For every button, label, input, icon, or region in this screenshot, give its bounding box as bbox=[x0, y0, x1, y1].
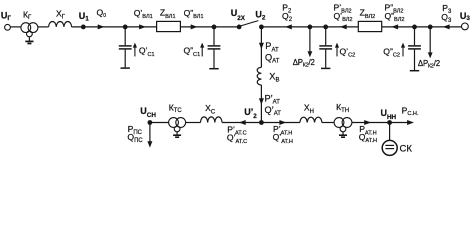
arrow Q0 right bbox=[98, 24, 105, 29]
wire bbox=[260, 85, 262, 123]
QC1 up arrow bbox=[134, 47, 136, 57]
svg-text:U’2: U’2 bbox=[244, 107, 257, 120]
svg-text:ΔPК2/2: ΔPК2/2 bbox=[293, 58, 315, 68]
loss branch dPk2/2 right bbox=[429, 27, 431, 53]
svg-text:UГ: UГ bbox=[1, 10, 12, 22]
svg-text:U2: U2 bbox=[255, 10, 266, 22]
loss branch dPk2/2 left bbox=[309, 27, 311, 52]
junction dot bbox=[428, 25, 433, 30]
arrow PС.Н right bbox=[407, 120, 414, 125]
bottom wire left bbox=[150, 122, 169, 124]
wire bbox=[180, 26, 239, 28]
arrow P2Q2 left bbox=[285, 24, 292, 29]
arrow P'АТ down bbox=[259, 98, 264, 105]
capacitor C1b branch bbox=[208, 27, 221, 69]
svg-text:Q’С2: Q’С2 bbox=[340, 46, 356, 58]
arrow PПС down bbox=[147, 141, 152, 147]
wire bbox=[38, 26, 49, 28]
ground bbox=[173, 132, 181, 137]
svg-text:Q”С1: Q”С1 bbox=[184, 46, 201, 58]
svg-text:UСН: UСН bbox=[140, 106, 156, 119]
svg-text:КТС: КТС bbox=[169, 102, 183, 114]
wire bbox=[261, 26, 358, 28]
QC2 up arrow bbox=[336, 47, 338, 57]
switch blade U2X-U2 bbox=[239, 21, 258, 27]
arrow P'АТ.С left bbox=[239, 120, 246, 125]
wire bbox=[186, 122, 201, 124]
arrow P3Q3 left bbox=[443, 24, 450, 29]
synchronous condenser stem bbox=[389, 123, 391, 141]
svg-text:ХГ: ХГ bbox=[56, 8, 66, 20]
svg-text:ХН: ХН bbox=[304, 103, 314, 115]
junction dot bbox=[412, 25, 417, 30]
svg-text:КТН: КТН bbox=[336, 102, 349, 114]
wire bbox=[352, 122, 413, 124]
inductor XГ bbox=[49, 21, 72, 26]
junction dot bbox=[212, 25, 217, 30]
junction dot bbox=[123, 25, 128, 30]
inductor XН bbox=[300, 117, 322, 122]
QC2b up arrow bbox=[402, 47, 404, 57]
svg-text:Q’АТ: Q’АТ bbox=[265, 105, 282, 117]
arrow QC1b up bbox=[200, 43, 204, 48]
svg-text:Q”С2: Q”С2 bbox=[383, 46, 400, 58]
wire bbox=[322, 122, 334, 124]
arrow PАТ down bbox=[259, 43, 264, 50]
junction dot bbox=[323, 25, 328, 30]
svg-text:U3: U3 bbox=[460, 11, 471, 22]
svg-text:ХВ: ХВ bbox=[269, 72, 279, 84]
svg-text:Q0: Q0 bbox=[97, 7, 107, 19]
wire bbox=[11, 26, 21, 28]
capacitor C2b branch bbox=[408, 27, 421, 71]
svg-text:ХС: ХС bbox=[205, 103, 216, 115]
capacitor C2 branch bbox=[319, 27, 332, 69]
svg-text:Q’ВЛ1: Q’ВЛ1 bbox=[134, 8, 153, 20]
svg-text:Q”ВЛ1: Q”ВЛ1 bbox=[184, 8, 204, 20]
arrow QC2 up bbox=[335, 43, 339, 48]
arrow P'АТ.Н right bbox=[279, 120, 286, 125]
terminal U3 bbox=[462, 23, 469, 30]
svg-text:СК: СК bbox=[400, 144, 413, 155]
arrow dPК2/2 down right bbox=[428, 52, 433, 58]
svg-text:Q’С1: Q’С1 bbox=[139, 46, 155, 58]
node UСН dot bbox=[148, 120, 153, 125]
arrow dPК2/2 down left bbox=[308, 51, 313, 57]
svg-text:QАТ: QАТ bbox=[265, 52, 280, 64]
terminal UГ bbox=[5, 24, 11, 30]
arrow Q'ВЛ1 right bbox=[139, 24, 146, 29]
inductor XС bbox=[201, 117, 223, 123]
arrow PАТ.Н right bbox=[364, 120, 371, 125]
wire bbox=[222, 122, 300, 124]
load arrow PПС stem bbox=[149, 123, 151, 142]
AT vertical branch bbox=[260, 27, 262, 67]
junction dot bbox=[308, 25, 313, 30]
resistor ZВЛ2 bbox=[358, 21, 381, 31]
synchronous condenser СК bbox=[382, 140, 397, 155]
capacitor C1 branch bbox=[119, 27, 132, 68]
transformer KТН bbox=[334, 118, 352, 132]
node U2X dot bbox=[237, 25, 242, 30]
arrow P'ВЛ2 left bbox=[340, 24, 347, 29]
wire bbox=[382, 26, 462, 28]
arrow QC1 up bbox=[133, 43, 137, 48]
transformer KГ bbox=[21, 23, 38, 37]
svg-text:ZВЛ1: ZВЛ1 bbox=[160, 7, 176, 20]
arrow Q''ВЛ1 right bbox=[191, 24, 198, 29]
svg-text:U2X: U2X bbox=[231, 8, 246, 22]
ground bbox=[25, 37, 33, 43]
svg-text:КГ: КГ bbox=[23, 9, 32, 21]
svg-text:U1: U1 bbox=[79, 11, 90, 23]
transformer KТС bbox=[169, 118, 186, 132]
node U'2 dot bbox=[259, 120, 264, 125]
QC1b up arrow bbox=[201, 47, 203, 57]
node U2 dot bbox=[259, 25, 264, 30]
resistor ZВЛ1 bbox=[157, 21, 181, 31]
arrow QC2b up bbox=[401, 43, 405, 48]
svg-text:PС.Н.: PС.Н. bbox=[402, 105, 419, 117]
arrow P''ВЛ2 left bbox=[391, 24, 398, 29]
wire bbox=[72, 26, 157, 28]
svg-text:ΔPК2/2: ΔPК2/2 bbox=[418, 59, 440, 69]
svg-text:UНН: UНН bbox=[381, 108, 397, 121]
node U1 dot bbox=[81, 25, 86, 30]
svg-text:ZВЛ2: ZВЛ2 bbox=[360, 7, 376, 20]
inductor XВ bbox=[257, 67, 261, 85]
ground bbox=[339, 132, 347, 137]
node UНН dot bbox=[387, 120, 392, 125]
